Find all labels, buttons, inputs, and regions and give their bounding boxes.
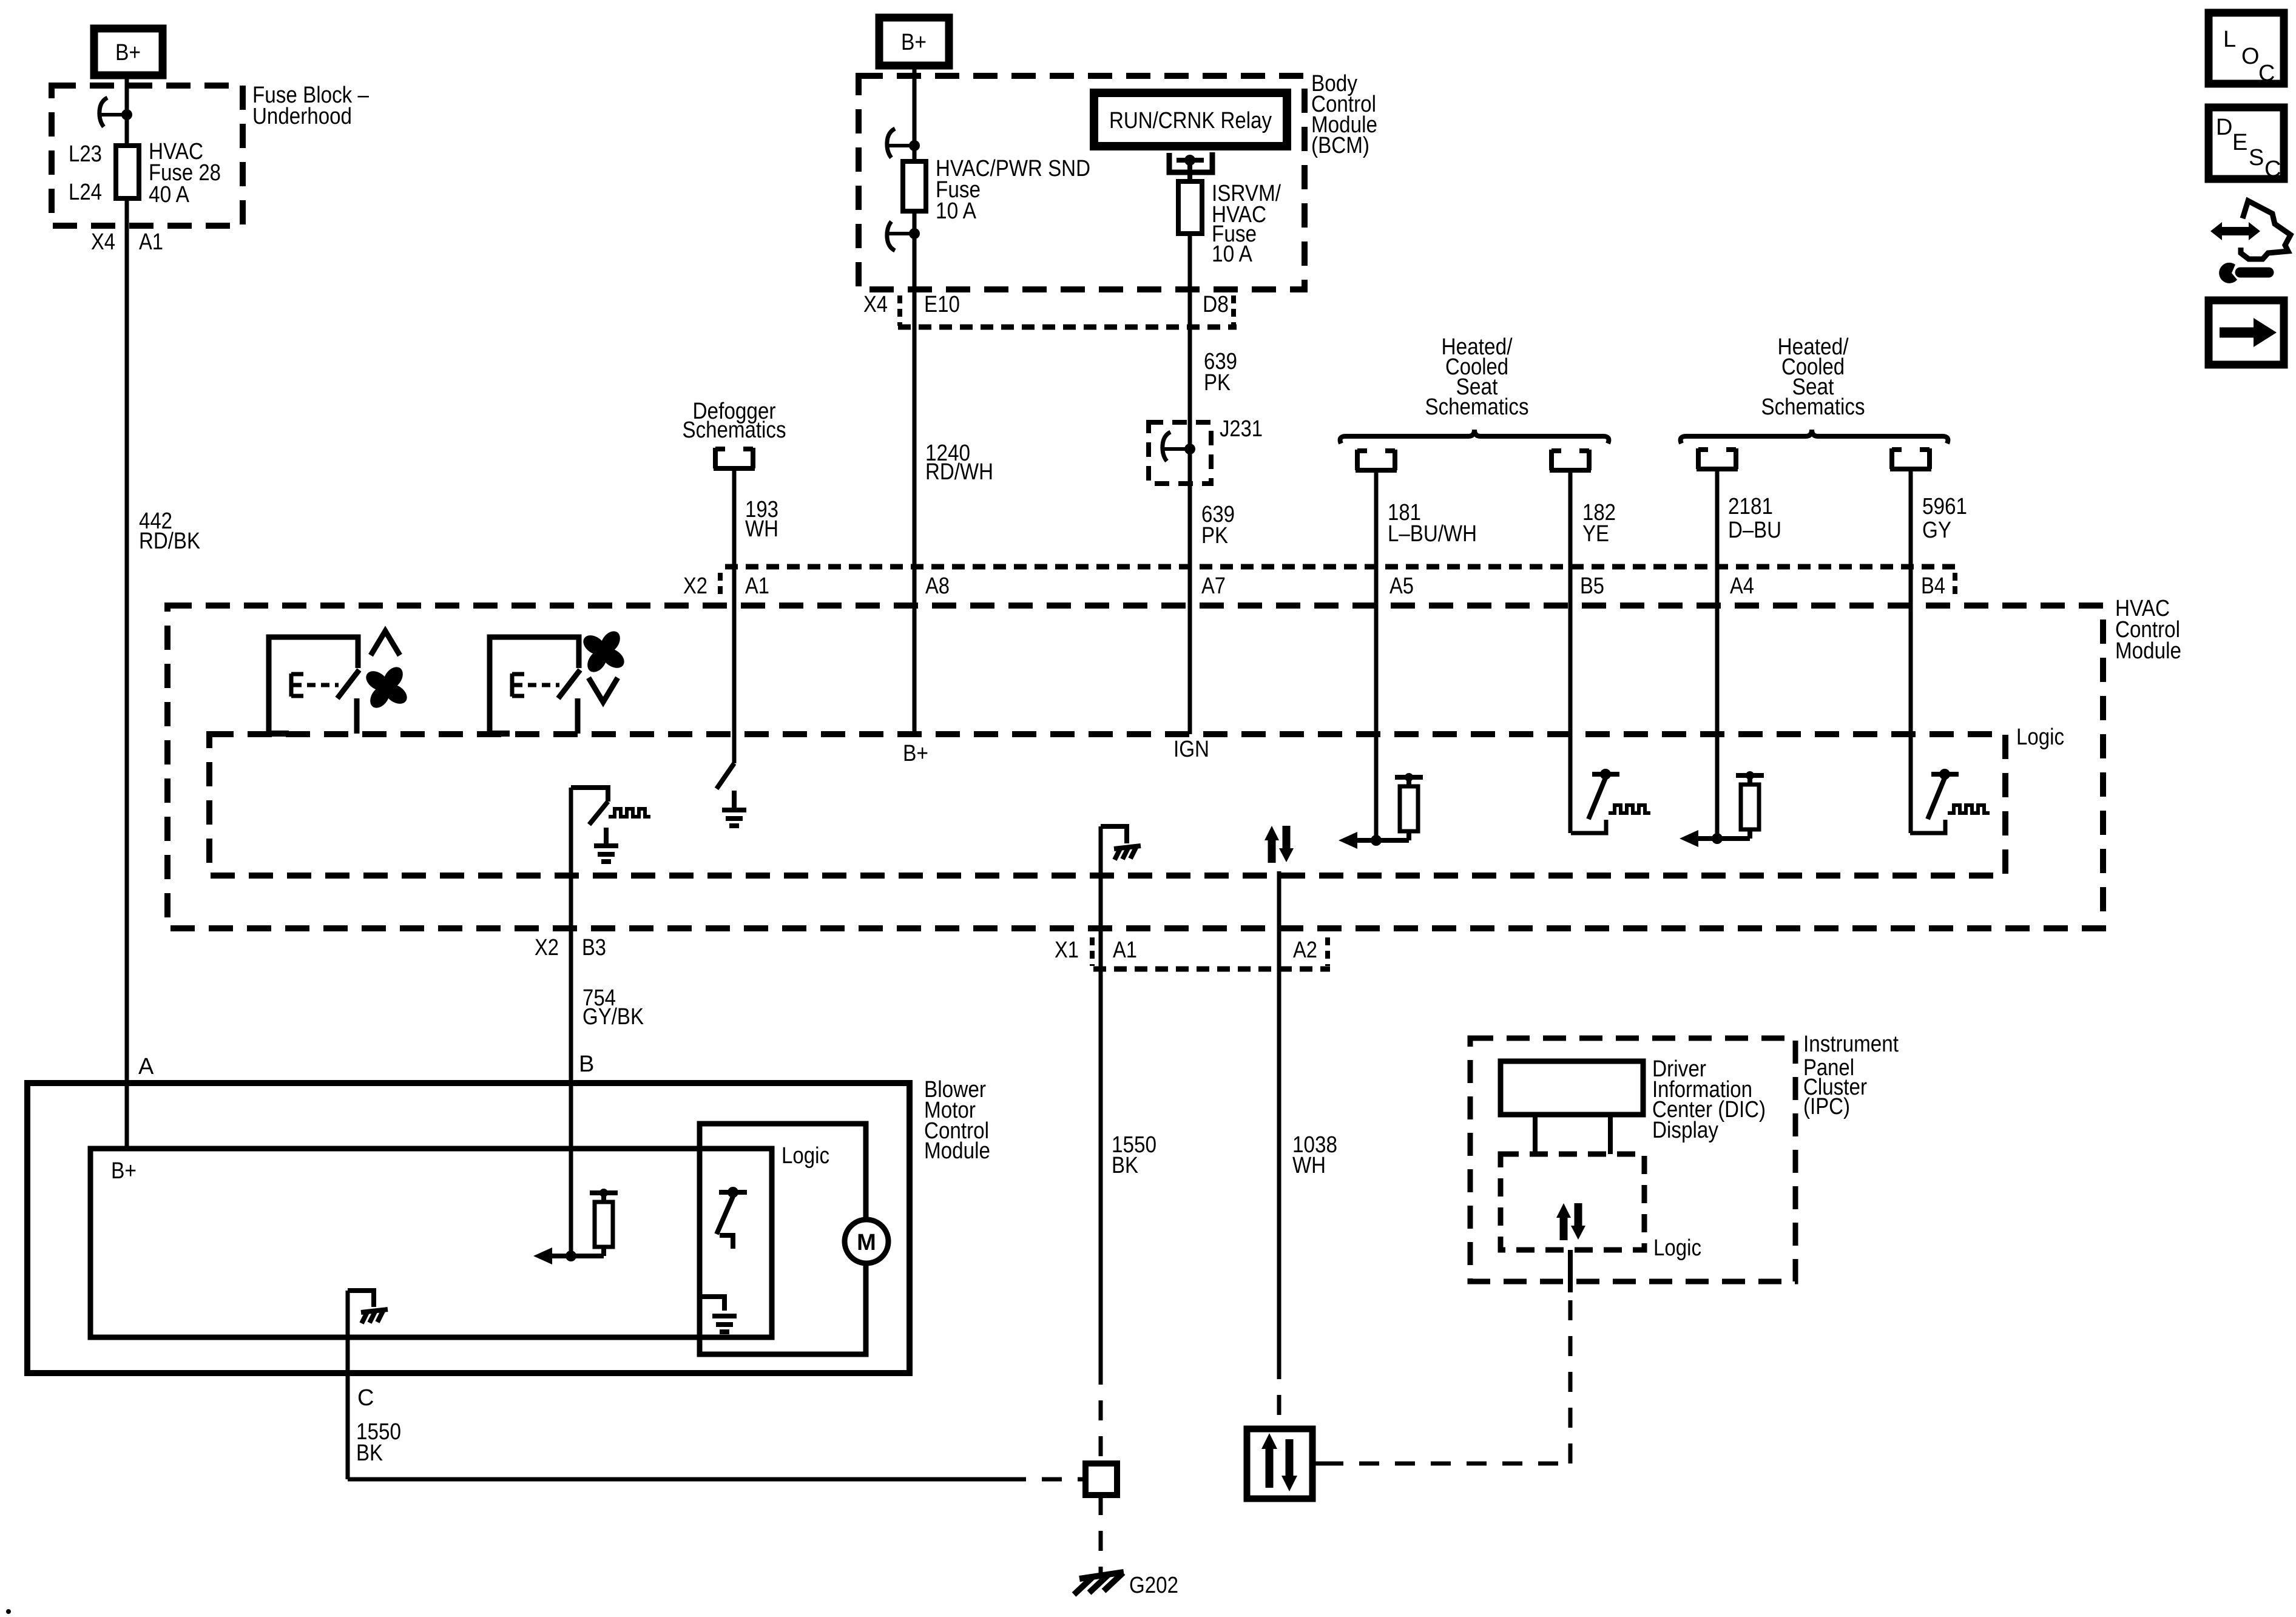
wire 1038 WH dashed — [1277, 1359, 1281, 1429]
svg-text:GY/BK: GY/BK — [582, 1004, 644, 1030]
wire 754 GY/BK — [569, 788, 573, 969]
fan box 1 bottom corner piece — [269, 731, 289, 737]
DIC label — [1652, 1056, 1766, 1143]
C wire horizontal solid — [348, 1477, 1006, 1482]
svg-text:L–BU/WH: L–BU/WH — [1388, 521, 1477, 547]
svg-text:X1: X1 — [1055, 937, 1079, 963]
svg-text:A5: A5 — [1389, 573, 1414, 599]
svg-text:B: B — [579, 1052, 594, 1077]
off-page connector 181 — [1356, 450, 1397, 470]
serial data dashed wire right — [1312, 1462, 1323, 1466]
svg-text:Underhood: Underhood — [252, 104, 352, 129]
svg-text:B+: B+ — [111, 1158, 137, 1184]
heated/cooled seat schematics label (right) — [1761, 334, 1865, 420]
svg-text:Display: Display — [1652, 1118, 1718, 1143]
blower speed pull-up with arrow — [533, 1189, 618, 1264]
blower module outer box — [27, 1083, 910, 1373]
RUN/CRNK relay box — [1094, 93, 1287, 146]
fuse F28 HVAC 40A — [116, 146, 139, 198]
IPC logic dashed box — [1501, 1154, 1644, 1250]
svg-text:RD/WH: RD/WH — [925, 459, 993, 485]
svg-text:D–BU: D–BU — [1728, 518, 1781, 543]
svg-text:C: C — [357, 1385, 374, 1411]
off-page connector 182 — [1550, 450, 1591, 470]
DIC legs — [1533, 1115, 1538, 1154]
wire 5961 GY — [1909, 469, 1913, 833]
wire 1038 WH solid lower — [1277, 969, 1281, 1359]
LOC icon — [2209, 13, 2284, 86]
serial data solid stub — [1568, 1250, 1573, 1292]
svg-text:B+: B+ — [115, 40, 141, 66]
wire label 1240 RD/WH — [925, 441, 993, 485]
svg-text:X2: X2 — [683, 573, 707, 599]
svg-text:S: S — [2249, 145, 2264, 170]
fan switch 1 (up) — [269, 637, 359, 734]
X1 connector dotted row — [1092, 937, 1330, 969]
svg-text:L23: L23 — [69, 141, 102, 167]
fuse block label — [252, 83, 370, 129]
svg-text:A4: A4 — [1730, 573, 1754, 599]
754 blower control switch (hook with PWM) — [571, 788, 650, 862]
ISRVM fuse label — [1212, 181, 1281, 267]
B+ terminal box (middle) — [879, 18, 949, 66]
svg-text:GY: GY — [1922, 518, 1951, 543]
IPC dashed box — [1470, 1038, 1795, 1281]
wire label 182 YE — [1582, 500, 1616, 547]
svg-text:L: L — [2223, 27, 2236, 52]
svg-text:Logic: Logic — [2016, 724, 2064, 750]
wire 1038 WH (module internal) — [1277, 871, 1281, 969]
svg-text:PK: PK — [1204, 370, 1231, 396]
heated/cooled seat schematics label (left) — [1425, 334, 1529, 420]
Fuse Block - Underhood dashed box — [52, 86, 243, 226]
wire 442 RD/BK vertical — [125, 75, 129, 1149]
wire 1550 BK dashed — [1099, 1365, 1103, 1463]
blower logic box — [700, 1124, 866, 1354]
wire label 1038 WH — [1292, 1132, 1337, 1178]
dashed wire below square — [1099, 1495, 1103, 1573]
svg-text:A1: A1 — [139, 229, 163, 255]
C wire chassis ground hook — [348, 1291, 388, 1323]
DESC icon — [2209, 107, 2284, 182]
svg-text:B+: B+ — [901, 30, 927, 55]
wire 1550 BK solid lower — [1099, 969, 1103, 1365]
fan box 2 bottom corner piece — [490, 731, 510, 737]
ISRVM/HVAC fuse — [1178, 181, 1202, 234]
wire label 2181 D-BU — [1728, 494, 1781, 543]
svg-text:A2: A2 — [1293, 937, 1317, 963]
svg-text:(BCM): (BCM) — [1311, 133, 1369, 158]
wire 639 PK vertical — [1188, 181, 1192, 734]
off-page connector 5961 — [1890, 448, 1931, 469]
svg-text:WH: WH — [745, 516, 778, 542]
X2 connector dotted row — [720, 567, 1955, 599]
svg-text:C: C — [2264, 157, 2281, 182]
svg-text:Instrument: Instrument — [1803, 1031, 1899, 1057]
next page arrow icon — [2209, 300, 2284, 365]
X2/B3 exit labels — [535, 935, 606, 960]
HVAC control module dashed box — [167, 606, 2103, 928]
wire 193 WH — [732, 468, 737, 763]
wire 1550 BK (module internal) — [1099, 826, 1103, 969]
A1 switch to ground inside logic — [717, 763, 746, 826]
fuse value label — [149, 139, 221, 208]
A5 pull-up with arrow — [1339, 773, 1423, 849]
wire label 181 L-BU/WH — [1388, 500, 1477, 547]
svg-text:RD/BK: RD/BK — [139, 528, 200, 554]
C wire horizontal dashed — [1006, 1477, 1086, 1482]
A4 pull-up with arrow — [1680, 771, 1764, 847]
svg-text:40 A: 40 A — [149, 182, 190, 208]
IPC serial data arrows — [1556, 1203, 1585, 1240]
blower logic switch — [717, 1187, 747, 1249]
A2 serial data arrows inside logic — [1264, 826, 1294, 863]
wire 2181 D-BU — [1715, 469, 1720, 839]
wire label 754 GY/BK — [582, 985, 644, 1030]
svg-text:2181: 2181 — [1728, 494, 1773, 519]
svg-text:X4: X4 — [91, 229, 115, 255]
svg-text:B+: B+ — [903, 741, 928, 766]
wire C 1550 BK — [346, 1291, 350, 1479]
svg-text:M: M — [857, 1230, 876, 1255]
HVAC logic dashed box — [209, 734, 2005, 876]
svg-text:J231: J231 — [1220, 416, 1263, 442]
connector X4 A1 labels — [91, 229, 163, 255]
svg-text:Schematics: Schematics — [683, 417, 786, 443]
J231 splice dashed box — [1149, 416, 1263, 484]
fuse terminal labels — [69, 141, 102, 205]
defogger off-page connector — [714, 448, 755, 468]
fuse clip — [100, 98, 132, 127]
svg-text:Schematics: Schematics — [1425, 394, 1529, 420]
svg-text:Logic: Logic — [782, 1143, 829, 1169]
svg-text:B5: B5 — [1580, 573, 1604, 599]
serial data dashed wire up — [1568, 1292, 1573, 1463]
BCM connector row X4 E10 D8 — [863, 292, 1237, 327]
wire 754 GY/BK lower — [569, 969, 573, 1256]
svg-text:A7: A7 — [1201, 573, 1226, 599]
wire 181 L-BU/WH — [1374, 470, 1379, 840]
wire 182 YE — [1568, 470, 1573, 833]
wire label 5961 GY — [1922, 494, 1967, 543]
G202 chassis ground — [1074, 1572, 1178, 1598]
off-page connector 2181 — [1697, 448, 1738, 469]
svg-text:O: O — [2241, 44, 2260, 69]
IPC label — [1803, 1031, 1899, 1119]
wire label 639 PK (upper) — [1204, 349, 1237, 396]
svg-text:A1: A1 — [745, 573, 769, 599]
HVAC/PWR SND fuse — [903, 161, 926, 211]
stray dot bottom left — [6, 1609, 11, 1614]
X1/A1 chassis ground hook inside logic — [1101, 826, 1141, 860]
car with arrow and wrench icon — [2210, 201, 2291, 283]
B5 PWM switch — [1571, 769, 1650, 833]
svg-text:G202: G202 — [1129, 1573, 1178, 1598]
svg-text:BK: BK — [1112, 1153, 1138, 1178]
fan switch 2 (down) — [490, 637, 580, 734]
svg-text:A1: A1 — [1113, 937, 1137, 963]
motor M — [845, 1220, 888, 1263]
serial data connector box — [1247, 1429, 1312, 1499]
svg-text:Module: Module — [2115, 638, 2181, 664]
fuse clip top — [887, 129, 920, 158]
wire 1240 RD/WH vertical — [913, 66, 917, 734]
svg-text:Schematics: Schematics — [1761, 394, 1865, 420]
blower logic ground — [700, 1297, 737, 1332]
svg-text:10 A: 10 A — [1212, 241, 1253, 267]
wire label 639 PK (lower) — [1201, 502, 1235, 549]
fan icon 2 — [579, 627, 627, 675]
G202 junction square — [1086, 1463, 1117, 1495]
svg-text:B3: B3 — [582, 935, 606, 960]
svg-text:(IPC): (IPC) — [1803, 1094, 1850, 1119]
relay contact — [1169, 152, 1212, 181]
svg-text:E10: E10 — [924, 292, 960, 317]
svg-text:BK: BK — [356, 1440, 383, 1466]
wire label 1550 BK (bottom) — [356, 1419, 401, 1466]
brace (left pair) — [1340, 430, 1609, 444]
brace (right pair) — [1681, 430, 1948, 444]
svg-text:WH: WH — [1292, 1153, 1326, 1178]
svg-text:D: D — [2216, 115, 2232, 140]
svg-text:B4: B4 — [1921, 573, 1945, 599]
svg-text:RUN/CRNK Relay: RUN/CRNK Relay — [1109, 108, 1272, 133]
svg-text:X4: X4 — [863, 292, 888, 317]
fan speed down chevron — [589, 678, 618, 702]
fan icon 1 — [362, 663, 410, 711]
X2 row pin labels — [683, 573, 1945, 599]
BCM dashed box — [859, 76, 1305, 289]
wire label 442 RD/BK — [139, 508, 200, 554]
svg-text:A8: A8 — [925, 573, 950, 599]
svg-text:10 A: 10 A — [936, 198, 977, 224]
fuse clip bottom — [887, 221, 920, 251]
svg-text:Logic: Logic — [1653, 1235, 1701, 1261]
svg-text:IGN: IGN — [1173, 737, 1209, 762]
svg-text:Module: Module — [924, 1138, 990, 1164]
svg-text:PK: PK — [1201, 523, 1228, 549]
wire label 193 WH — [745, 497, 778, 542]
svg-text:5961: 5961 — [1922, 494, 1967, 519]
blower module label — [924, 1077, 990, 1164]
inner B+ box — [90, 1149, 772, 1337]
fan speed up chevron — [371, 631, 400, 655]
B+ terminal box (left) — [94, 29, 163, 75]
svg-text:C: C — [2258, 61, 2275, 86]
svg-text:L24: L24 — [69, 180, 102, 205]
B4 PWM switch — [1910, 769, 1990, 833]
svg-text:E: E — [2232, 130, 2247, 155]
HVAC control module label — [2115, 596, 2181, 664]
svg-text:X2: X2 — [535, 935, 559, 960]
fuse label — [936, 156, 1090, 224]
wire label 1550 BK (left) — [1112, 1132, 1156, 1178]
defogger schematics label — [683, 399, 786, 443]
BCM label — [1311, 71, 1377, 158]
svg-text:A: A — [138, 1054, 154, 1079]
DIC display box — [1501, 1061, 1643, 1115]
X1 row pin labels — [1055, 937, 1317, 963]
svg-text:D8: D8 — [1203, 292, 1229, 317]
svg-text:YE: YE — [1582, 521, 1609, 547]
